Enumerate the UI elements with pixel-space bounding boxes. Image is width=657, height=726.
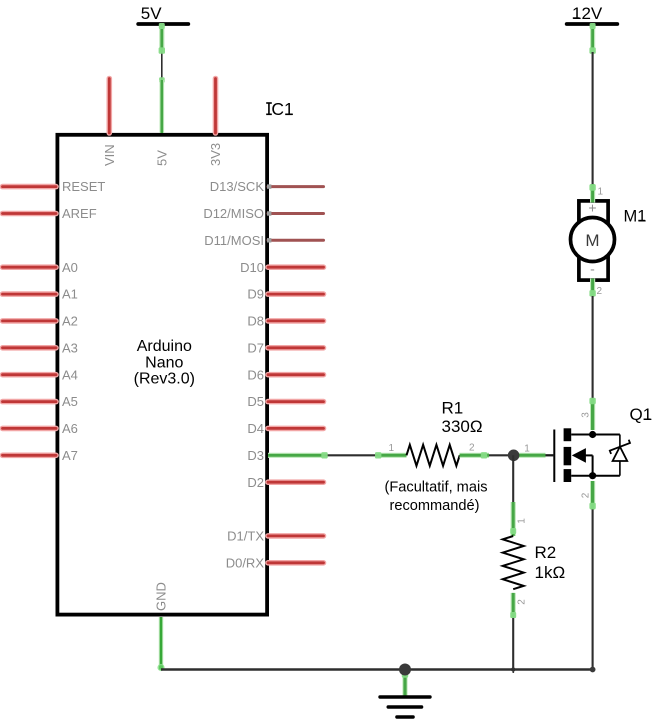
terminal square at 12V bar bbox=[590, 23, 596, 29]
svg-text:AREF: AREF bbox=[62, 206, 97, 221]
svg-text:M: M bbox=[585, 231, 599, 250]
IC1 Arduino Nano body bbox=[57, 135, 267, 615]
pin A5 of IC1 bbox=[3, 399, 57, 405]
wire Q1 source to ground bus bbox=[592, 510, 594, 670]
power symbol 5V bbox=[138, 4, 188, 52]
motor M1 pin 2 bbox=[590, 279, 595, 297]
svg-text:2: 2 bbox=[581, 492, 592, 498]
pin VIN of IC1 bbox=[107, 79, 113, 134]
resistor R1 pin 1 bbox=[378, 453, 407, 458]
resistor R2 pin 1 bbox=[511, 502, 516, 536]
svg-text:D9: D9 bbox=[247, 287, 264, 302]
terminal square at 5V bar bbox=[159, 23, 165, 29]
svg-text:(Rev3.0): (Rev3.0) bbox=[134, 371, 195, 388]
junction Q1-bus bbox=[590, 667, 596, 673]
pin D13/SCK of IC1 bbox=[267, 184, 324, 188]
pin D5 of IC1 bbox=[268, 399, 324, 405]
power symbol 12V bbox=[567, 4, 618, 52]
pin D4 of IC1 bbox=[268, 426, 324, 432]
svg-text:IC1: IC1 bbox=[267, 99, 294, 119]
svg-text:1: 1 bbox=[524, 444, 530, 455]
svg-text:D0/RX: D0/RX bbox=[226, 555, 265, 570]
svg-text:A5: A5 bbox=[62, 394, 78, 409]
svg-text:Arduino: Arduino bbox=[137, 338, 192, 355]
svg-text:D6: D6 bbox=[247, 367, 264, 382]
wire node to Q1 gate bbox=[514, 453, 546, 458]
svg-text:A1: A1 bbox=[62, 287, 78, 302]
top pin labels VIN 5V 3V3 bbox=[102, 143, 223, 166]
pin D7 of IC1 bbox=[268, 345, 324, 351]
pin D9 of IC1 bbox=[268, 291, 324, 297]
junction R2-bus bbox=[511, 667, 515, 671]
svg-text:D13/SCK: D13/SCK bbox=[210, 179, 265, 194]
terminal square 12V wire top bbox=[589, 47, 595, 53]
pin D3 of IC1 bbox=[268, 453, 325, 458]
svg-text:D7: D7 bbox=[247, 340, 264, 355]
wire R1 to gate node bbox=[489, 454, 514, 456]
svg-text:D10: D10 bbox=[240, 260, 264, 275]
wire 12V to motor M1 bbox=[592, 52, 594, 186]
svg-text:VIN: VIN bbox=[102, 144, 117, 166]
svg-text:R2: R2 bbox=[535, 543, 557, 562]
svg-text:D5: D5 bbox=[247, 394, 264, 409]
pin D6 of IC1 bbox=[268, 372, 324, 378]
svg-text:A7: A7 bbox=[62, 448, 78, 463]
pin A6 of IC1 bbox=[3, 426, 57, 432]
svg-text:D2: D2 bbox=[247, 475, 264, 490]
pin A2 of IC1 bbox=[3, 318, 57, 324]
pin D8 of IC1 bbox=[268, 318, 324, 324]
motor M1 bbox=[571, 199, 615, 280]
wire ground bus bbox=[161, 668, 593, 671]
svg-text:recommandé): recommandé) bbox=[389, 498, 479, 514]
wire 5V symbol to IC1 5V pin bbox=[161, 52, 163, 80]
pin A4 of IC1 bbox=[3, 372, 57, 378]
svg-text:A3: A3 bbox=[62, 340, 78, 355]
svg-text:A2: A2 bbox=[62, 314, 78, 329]
svg-text:3V3: 3V3 bbox=[208, 143, 223, 166]
pin GND of IC1 (connected) bbox=[159, 617, 163, 670]
pin D0/RX of IC1 bbox=[268, 560, 324, 566]
resistor R1 pin 2 bbox=[460, 453, 490, 458]
pin D11/MOSI of IC1 bbox=[267, 238, 324, 242]
wire R2 to ground bus bbox=[512, 618, 514, 670]
svg-text:D3: D3 bbox=[247, 448, 264, 463]
svg-text:5V: 5V bbox=[141, 4, 162, 23]
terminal square 5V wire top bbox=[159, 47, 165, 53]
transistor Q1 (N-channel MOSFET) bbox=[546, 428, 620, 482]
transistor Q1 pin 2 (source) bbox=[590, 481, 595, 510]
pin D2 of IC1 bbox=[268, 479, 324, 485]
svg-text:1: 1 bbox=[389, 443, 395, 454]
svg-text:1kΩ: 1kΩ bbox=[535, 563, 566, 582]
svg-text:2: 2 bbox=[516, 599, 527, 605]
svg-text:A6: A6 bbox=[62, 421, 78, 436]
svg-text:D4: D4 bbox=[247, 421, 264, 436]
terminal square D3 wire end bbox=[321, 452, 327, 458]
resistor R1 (330 ohm) bbox=[407, 445, 460, 466]
resistor R2 pin 2 bbox=[511, 593, 516, 618]
IC1 center text bbox=[134, 338, 195, 388]
terminal square 5V wire bottom bbox=[159, 77, 165, 83]
pin RESET of IC1 bbox=[3, 184, 57, 190]
svg-text:-: - bbox=[590, 261, 595, 277]
svg-text:2: 2 bbox=[469, 443, 475, 454]
ground pin bbox=[402, 671, 407, 697]
svg-text:(Facultatif, mais: (Facultatif, mais bbox=[385, 480, 488, 496]
svg-text:330Ω: 330Ω bbox=[442, 417, 483, 436]
pin A3 of IC1 bbox=[3, 345, 57, 351]
pin A0 of IC1 bbox=[3, 264, 57, 270]
pin A1 of IC1 bbox=[3, 291, 57, 297]
pin AREF of IC1 bbox=[3, 211, 57, 217]
svg-text:5V: 5V bbox=[154, 150, 169, 166]
junction ground symbol on bus bbox=[399, 664, 411, 676]
svg-text:D12/MISO: D12/MISO bbox=[203, 206, 264, 221]
svg-text:3: 3 bbox=[581, 412, 592, 418]
pin D10 of IC1 bbox=[268, 264, 324, 270]
svg-text:Q1: Q1 bbox=[630, 405, 653, 424]
svg-text:D11/MOSI: D11/MOSI bbox=[204, 233, 264, 248]
wire motor M1 to Q1 drain bbox=[592, 296, 594, 400]
svg-text:D8: D8 bbox=[247, 314, 264, 329]
body diode of Q1 bbox=[609, 435, 632, 476]
resistor R2 (1k ohm) bbox=[503, 536, 524, 589]
wire node to R2 bbox=[512, 455, 514, 503]
svg-text:M1: M1 bbox=[624, 207, 647, 225]
node gate junction bbox=[508, 450, 520, 462]
pin 3V3 of IC1 bbox=[213, 79, 219, 134]
wire D3 to R1 bbox=[325, 454, 379, 456]
svg-text:1: 1 bbox=[516, 518, 527, 524]
motor M1 pin 1 bbox=[590, 184, 595, 203]
svg-text:R1: R1 bbox=[442, 399, 464, 418]
pin A7 of IC1 bbox=[3, 452, 57, 458]
pin 5V of IC1 (connected) bbox=[160, 80, 165, 133]
pin D12/MISO of IC1 bbox=[267, 211, 324, 215]
svg-text:1: 1 bbox=[598, 186, 604, 197]
transistor Q1 pin 3 (drain) bbox=[590, 399, 595, 431]
svg-text:A0: A0 bbox=[62, 260, 78, 275]
svg-text:12V: 12V bbox=[572, 4, 603, 23]
svg-text:RESET: RESET bbox=[62, 179, 105, 194]
svg-text:Nano: Nano bbox=[145, 354, 183, 371]
pin D1/TX of IC1 bbox=[268, 533, 324, 539]
svg-text:GND: GND bbox=[154, 582, 169, 611]
svg-text:2: 2 bbox=[597, 286, 603, 297]
svg-text:A4: A4 bbox=[62, 367, 78, 382]
ground symbol bbox=[380, 697, 430, 717]
svg-text:D1/TX: D1/TX bbox=[227, 529, 264, 544]
